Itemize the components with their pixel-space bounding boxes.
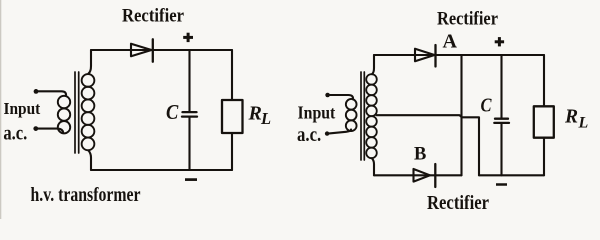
minus terminal label (right) xyxy=(496,183,507,186)
svg-text:Rectifier: Rectifier xyxy=(437,9,498,30)
svg-text:Rectifier: Rectifier xyxy=(427,192,489,214)
value label R_L (right) xyxy=(564,107,589,132)
minus terminal label (left) xyxy=(185,178,197,181)
svg-text:R: R xyxy=(564,107,578,128)
capacitor C1 (left) top lead wire xyxy=(188,50,190,111)
capacitor C1 (left) bottom lead wire xyxy=(188,118,190,170)
rectifier diode A xyxy=(415,45,436,67)
input terminal dot lower (left) xyxy=(33,126,38,131)
wire: input lower lead (left) xyxy=(38,129,63,133)
transformer T2 secondary winding xyxy=(366,74,377,158)
right circuit negative rail wire xyxy=(479,174,544,176)
wire: diode B branch (bottom line) xyxy=(374,174,462,176)
wire: input upper lead (left) xyxy=(38,91,66,96)
svg-text:Input: Input xyxy=(4,99,41,118)
resistor R_L (right) bottom lead wire xyxy=(543,138,545,176)
svg-text:a.c.: a.c. xyxy=(297,125,321,146)
svg-text:L: L xyxy=(260,109,271,128)
rectifier diode D1 (left) xyxy=(131,39,153,61)
plus terminal label (right) xyxy=(495,37,504,46)
right circuit top (+) rail wire xyxy=(374,54,544,56)
svg-text:Rectifier: Rectifier xyxy=(122,6,184,27)
svg-text:R: R xyxy=(248,103,262,125)
wire: transformer T2 secondary top lead xyxy=(372,55,374,74)
wire: transformer T1 secondary bottom lead xyxy=(89,151,92,171)
svg-text:C: C xyxy=(166,100,179,124)
transformer T2 core xyxy=(361,72,364,160)
svg-text:h.v. transformer: h.v. transformer xyxy=(31,184,141,206)
svg-text:A: A xyxy=(443,30,458,52)
wire: input upper lead (right) xyxy=(330,95,353,99)
input terminal dot lower (right) xyxy=(325,131,329,135)
capacitor C1 (left) plates xyxy=(182,112,197,117)
svg-text:C: C xyxy=(481,95,492,117)
transformer T1 secondary winding xyxy=(82,74,95,150)
resistor R_L (left) body xyxy=(222,100,243,133)
input terminal dot upper (right) xyxy=(325,93,330,98)
wire: diode B cathode to plus rail riser xyxy=(460,55,462,175)
resistor R_L (left) bottom lead wire xyxy=(231,133,233,170)
plus terminal label (left) xyxy=(183,33,193,42)
value label R_L (left) xyxy=(248,103,272,129)
transformer T1 primary winding xyxy=(58,96,70,134)
transformer T1 core xyxy=(75,72,79,153)
resistor R_L (right) body xyxy=(534,106,554,137)
svg-text:Input: Input xyxy=(298,103,336,123)
capacitor C2 (right) plates xyxy=(494,119,509,123)
wire: input lower lead (right) xyxy=(329,130,351,134)
transformer T2 primary winding xyxy=(346,99,357,131)
left circuit bottom rail wire xyxy=(91,169,232,171)
resistor R_L (left) top lead wire xyxy=(231,50,233,100)
wire: transformer T2 secondary bottom lead xyxy=(372,158,374,175)
left circuit top rail wire xyxy=(91,49,232,51)
svg-text:a.c.: a.c. xyxy=(3,122,27,144)
wire: transformer T1 secondary top lead xyxy=(89,50,92,74)
svg-text:B: B xyxy=(414,145,426,165)
wire: centre tap to negative rail (with crossover jog) xyxy=(377,115,480,175)
capacitor C2 (right) top lead wire xyxy=(500,55,502,118)
resistor R_L (right) top lead wire xyxy=(543,55,545,106)
input terminal dot upper (left) xyxy=(34,89,39,94)
svg-text:L: L xyxy=(578,115,589,132)
capacitor C2 (right) bottom lead wire xyxy=(500,124,502,175)
rectifier diode B xyxy=(414,164,436,187)
